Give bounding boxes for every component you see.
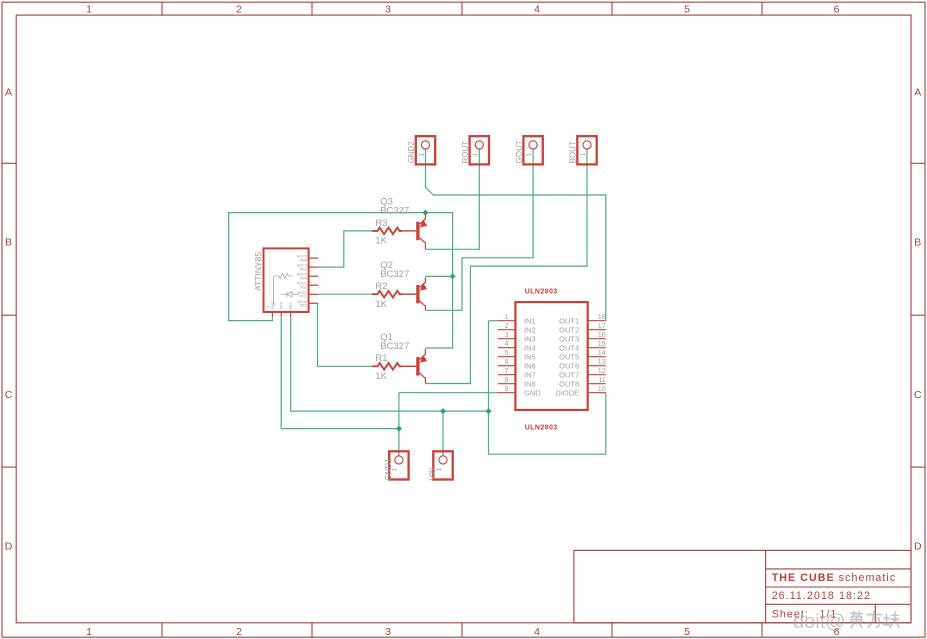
svg-text:4: 4	[534, 4, 540, 16]
svg-text:THE CUBE schematic: THE CUBE schematic	[772, 572, 897, 584]
svg-text:IN8: IN8	[524, 379, 536, 388]
svg-text:GND: GND	[271, 301, 275, 310]
svg-text:A: A	[914, 87, 921, 99]
svg-text:1: 1	[86, 626, 92, 638]
svg-text:9: 9	[505, 384, 509, 393]
svg-text:D: D	[5, 541, 13, 553]
svg-text:10: 10	[598, 384, 606, 393]
svg-text:1K: 1K	[375, 299, 387, 310]
svg-text:6: 6	[505, 357, 509, 366]
svg-text:BC327: BC327	[380, 269, 409, 280]
svg-text:IN2: IN2	[524, 325, 536, 334]
svg-text:3: 3	[505, 330, 509, 339]
svg-text:6: 6	[834, 4, 840, 16]
svg-text:13: 13	[598, 357, 606, 366]
svg-text:1K: 1K	[375, 236, 387, 247]
svg-text:IN1: IN1	[524, 316, 536, 325]
svg-text:1: 1	[436, 468, 443, 472]
svg-text:1: 1	[392, 468, 399, 472]
svg-text:PB3: PB3	[300, 267, 307, 271]
svg-text:IN5: IN5	[524, 352, 536, 361]
svg-text:OUT2: OUT2	[559, 325, 579, 334]
svg-text:OUT4: OUT4	[559, 343, 579, 352]
svg-text:12: 12	[598, 366, 606, 375]
svg-text:DIODE: DIODE	[555, 388, 579, 397]
svg-text:4: 4	[505, 339, 509, 348]
svg-text:PB2: PB2	[300, 285, 307, 289]
svg-text:VCC: VCC	[280, 301, 284, 309]
svg-text:ROUT: ROUT	[461, 141, 470, 164]
svg-text:C: C	[914, 389, 922, 401]
svg-text:R3: R3	[375, 218, 387, 229]
svg-text:7: 7	[505, 366, 509, 375]
svg-text:doit@: doit@	[793, 611, 846, 633]
svg-text:GND2: GND2	[407, 141, 416, 164]
svg-text:2: 2	[505, 321, 509, 330]
svg-text:1: 1	[86, 4, 92, 16]
svg-text:1: 1	[418, 153, 425, 157]
svg-text:R1: R1	[375, 353, 387, 364]
svg-text:BOUT: BOUT	[569, 141, 578, 163]
svg-text:1: 1	[505, 312, 509, 321]
svg-text:PB4: PB4	[300, 276, 307, 280]
svg-text:2: 2	[236, 626, 242, 638]
svg-text:2: 2	[236, 4, 242, 16]
svg-text:D: D	[914, 541, 922, 553]
svg-text:IN6: IN6	[524, 361, 536, 370]
svg-text:GOUT: GOUT	[515, 140, 524, 163]
svg-text:IN3: IN3	[524, 334, 536, 343]
svg-text:1K: 1K	[375, 371, 387, 382]
svg-text:OUT8: OUT8	[559, 379, 579, 388]
svg-text:15: 15	[598, 339, 606, 348]
svg-text:1: 1	[472, 153, 479, 157]
svg-text:B: B	[5, 237, 12, 249]
svg-text:5: 5	[505, 348, 509, 357]
svg-text:16: 16	[598, 330, 606, 339]
svg-text:R2: R2	[375, 281, 387, 292]
svg-text:18: 18	[598, 312, 606, 321]
svg-text:ATTINY85: ATTINY85	[253, 252, 263, 291]
svg-text:14: 14	[598, 348, 606, 357]
svg-text:BC327: BC327	[380, 206, 409, 217]
svg-text:ULN2803: ULN2803	[525, 424, 558, 431]
svg-text:OUT7: OUT7	[559, 370, 579, 379]
svg-text:5: 5	[684, 4, 690, 16]
svg-text:GND: GND	[524, 388, 541, 397]
svg-text:BC327: BC327	[380, 341, 409, 352]
svg-text:5: 5	[684, 626, 690, 638]
svg-text:A: A	[5, 87, 12, 99]
svg-text:1: 1	[266, 306, 270, 308]
svg-text:3: 3	[385, 626, 391, 638]
svg-text:PB0: PB0	[289, 302, 293, 309]
svg-text:OUT1: OUT1	[559, 316, 579, 325]
svg-text:PB0: PB0	[300, 304, 307, 308]
svg-text:17: 17	[598, 321, 606, 330]
svg-text:26.11.2018 18:22: 26.11.2018 18:22	[772, 590, 871, 602]
svg-text:B: B	[914, 237, 921, 249]
svg-text:4: 4	[534, 626, 540, 638]
svg-text:IN7: IN7	[524, 370, 536, 379]
svg-text:3: 3	[385, 4, 391, 16]
svg-text:1: 1	[580, 153, 587, 157]
svg-text:8: 8	[505, 375, 509, 384]
svg-text:OUT5: OUT5	[559, 352, 579, 361]
svg-text:PB5: PB5	[300, 258, 307, 262]
svg-text:IN4: IN4	[524, 343, 536, 352]
svg-text:1: 1	[526, 153, 533, 157]
svg-text:C: C	[5, 389, 13, 401]
svg-text:11: 11	[598, 375, 605, 384]
svg-text:PB1: PB1	[300, 295, 307, 299]
svg-text:OUT3: OUT3	[559, 334, 579, 343]
svg-text:ULN2803: ULN2803	[525, 289, 558, 296]
svg-text:OUT6: OUT6	[559, 361, 579, 370]
